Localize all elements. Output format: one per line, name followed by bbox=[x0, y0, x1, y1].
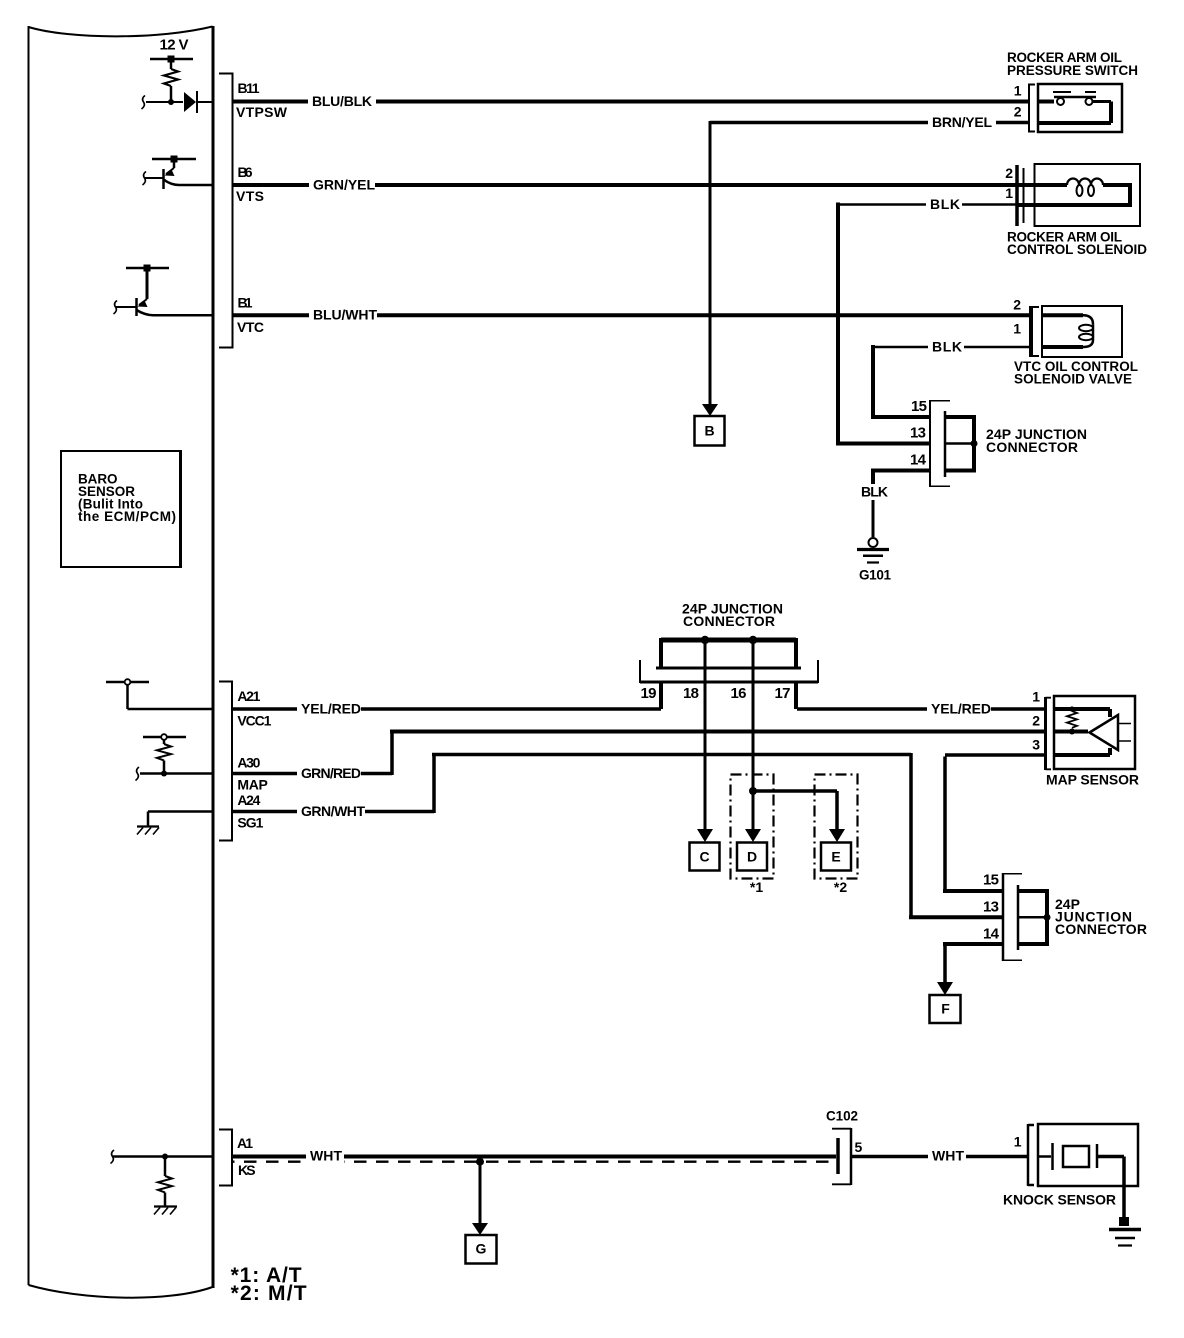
svg-text:GRN/WHT: GRN/WHT bbox=[301, 803, 365, 819]
svg-text:B6: B6 bbox=[238, 164, 253, 180]
svg-text:B11: B11 bbox=[238, 80, 260, 96]
svg-text:F: F bbox=[941, 1001, 950, 1017]
svg-text:A30: A30 bbox=[237, 755, 260, 771]
svg-text:1: 1 bbox=[1013, 321, 1021, 337]
svg-text:WHT: WHT bbox=[310, 1148, 342, 1164]
svg-text:the ECM/PCM): the ECM/PCM) bbox=[78, 509, 176, 524]
svg-text:2: 2 bbox=[1014, 104, 1022, 120]
svg-text:VTPSW: VTPSW bbox=[236, 104, 288, 120]
svg-text:1: 1 bbox=[1014, 83, 1022, 99]
svg-text:12 V: 12 V bbox=[160, 37, 189, 54]
svg-text:G101: G101 bbox=[859, 568, 891, 583]
svg-text:14: 14 bbox=[910, 452, 927, 469]
svg-text:GRN/YEL: GRN/YEL bbox=[313, 176, 375, 192]
svg-text:15: 15 bbox=[983, 872, 999, 889]
svg-text:5: 5 bbox=[855, 1139, 863, 1155]
svg-text:A1: A1 bbox=[237, 1135, 253, 1151]
svg-text:BLK: BLK bbox=[932, 338, 962, 354]
svg-text:CONNECTOR: CONNECTOR bbox=[986, 439, 1078, 455]
svg-text:SOLENOID VALVE: SOLENOID VALVE bbox=[1014, 372, 1132, 387]
svg-text:PRESSURE SWITCH: PRESSURE SWITCH bbox=[1007, 63, 1138, 78]
svg-text:G: G bbox=[476, 1241, 487, 1257]
svg-text:C: C bbox=[699, 849, 709, 865]
svg-text:WHT: WHT bbox=[932, 1148, 964, 1164]
svg-text:1: 1 bbox=[1014, 1134, 1022, 1150]
svg-text:1: 1 bbox=[1005, 185, 1013, 201]
svg-text:13: 13 bbox=[983, 899, 999, 916]
svg-text:14: 14 bbox=[983, 926, 1000, 943]
svg-text:A21: A21 bbox=[237, 688, 260, 704]
svg-text:MAP SENSOR: MAP SENSOR bbox=[1046, 772, 1139, 788]
svg-text:*2: *2 bbox=[834, 879, 847, 895]
svg-text:15: 15 bbox=[911, 398, 927, 415]
svg-text:KNOCK SENSOR: KNOCK SENSOR bbox=[1003, 1192, 1116, 1208]
svg-text:E: E bbox=[831, 849, 840, 865]
svg-text:3: 3 bbox=[1032, 737, 1040, 753]
svg-text:VTC: VTC bbox=[237, 319, 264, 335]
svg-text:17: 17 bbox=[775, 685, 791, 702]
svg-text:KS: KS bbox=[238, 1162, 256, 1178]
svg-text:19: 19 bbox=[641, 685, 657, 702]
svg-text:2: 2 bbox=[1032, 713, 1040, 729]
svg-text:13: 13 bbox=[910, 425, 926, 442]
svg-text:18: 18 bbox=[683, 685, 699, 702]
svg-text:BRN/YEL: BRN/YEL bbox=[932, 114, 992, 130]
svg-text:SG1: SG1 bbox=[237, 815, 263, 831]
svg-text:YEL/RED: YEL/RED bbox=[931, 700, 991, 716]
svg-text:1: 1 bbox=[1032, 689, 1040, 705]
svg-text:*1: *1 bbox=[750, 879, 763, 895]
svg-text:CONNECTOR: CONNECTOR bbox=[1055, 921, 1147, 937]
svg-text:16: 16 bbox=[731, 685, 747, 702]
svg-text:GRN/RED: GRN/RED bbox=[301, 765, 361, 781]
svg-text:B: B bbox=[704, 423, 714, 439]
svg-text:2: 2 bbox=[1013, 297, 1021, 313]
svg-text:BLK: BLK bbox=[861, 484, 888, 500]
svg-text:*2: M/T: *2: M/T bbox=[231, 1282, 307, 1305]
svg-text:BLU/WHT: BLU/WHT bbox=[313, 307, 377, 323]
svg-text:VCC1: VCC1 bbox=[237, 713, 271, 729]
svg-text:BLU/BLK: BLU/BLK bbox=[312, 93, 372, 109]
svg-text:A24: A24 bbox=[237, 792, 260, 808]
svg-text:C102: C102 bbox=[826, 1109, 858, 1124]
svg-text:CONTROL SOLENOID: CONTROL SOLENOID bbox=[1007, 242, 1147, 257]
svg-text:D: D bbox=[747, 849, 757, 865]
svg-text:B1: B1 bbox=[238, 295, 253, 311]
svg-text:YEL/RED: YEL/RED bbox=[301, 700, 361, 716]
svg-text:BLK: BLK bbox=[930, 196, 960, 212]
svg-text:2: 2 bbox=[1005, 165, 1013, 181]
svg-text:CONNECTOR: CONNECTOR bbox=[683, 613, 775, 629]
svg-text:MAP: MAP bbox=[237, 777, 268, 793]
svg-text:VTS: VTS bbox=[236, 188, 264, 204]
